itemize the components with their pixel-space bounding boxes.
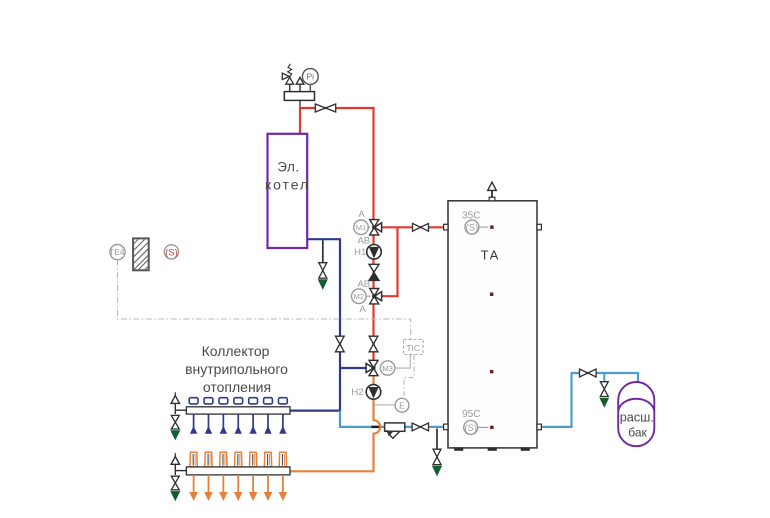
wire control line from TE4 to controller TIC [118,260,411,340]
valve on red pipe after safety group [315,104,325,112]
svg-text:Pi: Pi [307,72,315,82]
safety valve SV triangles [286,77,294,84]
wire control line TIC to actuator M3 [395,355,410,368]
svg-text:95C: 95C [462,409,480,420]
air vent triangle [296,77,304,84]
controller TIC box [404,340,424,355]
wire red pipe: horizontal run from boiler tee to riser [299,107,375,109]
wire light-blue pipe: return down from junction and to tank TA bottom stub [340,411,445,427]
outdoor sensor TE4 [110,245,125,260]
buffer tank TA vessel [448,201,537,448]
wire navy pipe: branch to collector supply bar [290,410,341,412]
svg-text:(S): (S) [466,223,479,234]
pump H2 [366,385,381,400]
svg-text:TIC: TIC [406,343,420,353]
tank TA lower right stub [537,424,541,430]
wire boiler-to-safety-manifold stem [299,100,301,109]
collector supply bar loop connections [189,398,198,404]
svg-text:M1: M1 [356,223,367,232]
tank TA feet [455,448,464,451]
tank TA upper right stub [537,224,541,230]
svg-text:(S): (S) [464,423,477,434]
svg-text:(S): (S) [165,247,178,258]
collector return air vent [174,453,176,456]
wire red pipe: M1 to tank TA upper stub [374,226,445,228]
wire sensor E to pipe [374,404,395,406]
svg-text:M2: M2 [354,292,365,301]
electric boiler vessel [268,134,308,248]
svg-text:H1: H1 [354,247,366,258]
wireless sensor S red [164,245,178,259]
svg-text:ТА: ТА [481,248,500,263]
tank TA top vent connector [489,197,495,201]
pressure gauge Pi [302,69,318,85]
three-way mixing valve M3 body [369,360,378,368]
svg-text:Эл.: Эл. [277,159,299,174]
tank TA air vent [491,190,493,197]
wire safety valve stem [289,84,291,92]
wire red pipe: bypass riser between M1 and M2 [380,227,398,296]
three-way valve M1 body [370,220,379,228]
boiler drain with valve and hose end [322,240,324,263]
tank temperature point 2 [490,293,493,296]
svg-text:Коллектор: Коллектор [202,343,270,359]
tank bottom drain with valve [436,429,438,450]
collector return bar [186,467,290,475]
tank TA lower left stub [444,424,448,430]
sensor E [395,398,409,412]
svg-text:E: E [399,401,405,411]
svg-text:котел: котел [265,177,310,193]
svg-text:A: A [360,304,367,315]
wire red pipe: riser down to valve M1 [372,107,374,221]
wire red pipe: M2 down through shut-off valve to mixing valve M3 [372,296,374,368]
wire red pipe: safety tee down into boiler [299,107,301,134]
tank TA upper left stub [444,224,448,230]
svg-text:отопления: отопления [203,379,271,395]
svg-text:M3: M3 [382,364,393,373]
wire navy pipe: boiler return from boiler right side [307,238,342,240]
sensor S bottom [464,420,478,434]
tank temperature point 4 [490,426,493,429]
three-way valve M2 body [370,289,379,297]
valve on navy riser [335,336,344,344]
svg-text:A: A [358,209,365,220]
collector return drain valve [171,476,179,483]
actuator M1 [368,226,370,228]
svg-text:AB: AB [357,236,370,247]
collector return thermo valves [190,452,197,467]
pump H1 [367,245,382,260]
expansion tank vessel [618,382,654,446]
valve on red pipe to tank TA [413,223,421,231]
collector supply drain valve [171,415,179,422]
expansion line drain with valve [603,373,605,382]
svg-text:бак: бак [628,426,647,440]
wire orange pipe: M3 outlet down through pump H2 with bridge over blue pipe [290,368,381,471]
actuator M3 [380,361,394,375]
check valve below H1 [369,264,379,272]
svg-text:внутрипольного: внутрипольного [185,361,288,377]
svg-text:расш.: расш. [620,411,654,425]
wire control line TIC to sensor E [404,355,414,398]
valve on expansion tank line [580,369,588,377]
wire navy pipe: return riser down to collector junction [339,239,341,411]
safety valve spring zigzag [288,64,292,77]
collector supply bar [186,407,290,414]
wire air vent stem [299,84,301,92]
svg-text:TE4: TE4 [109,247,125,257]
wire navy pipe: branch feeding mixing valve M3 [340,367,368,369]
actuator M2 [366,295,370,297]
valve on tank bottom line [412,423,420,431]
sensor S top [465,220,479,234]
valve on red pipe M2-M3 [369,336,378,344]
wire pipe crossing dark segment [371,426,380,428]
collector return arrows [193,475,195,494]
tank temperature point 1 [490,226,493,229]
collector supply drop tubes [193,414,195,432]
collector supply air vent [174,392,176,395]
safety group manifold [284,92,314,101]
svg-text:H2: H2 [351,387,363,398]
wire red pipe: M1 down through pump H1 and check valve to M2 [372,227,374,296]
wire light-blue pipe: tank TA bottom right stub to expansion tank [541,373,639,427]
wire gauge stem [309,84,311,91]
tank temperature point 3 [490,370,493,373]
wall section hatched [133,238,149,270]
strainer filter [385,423,405,431]
